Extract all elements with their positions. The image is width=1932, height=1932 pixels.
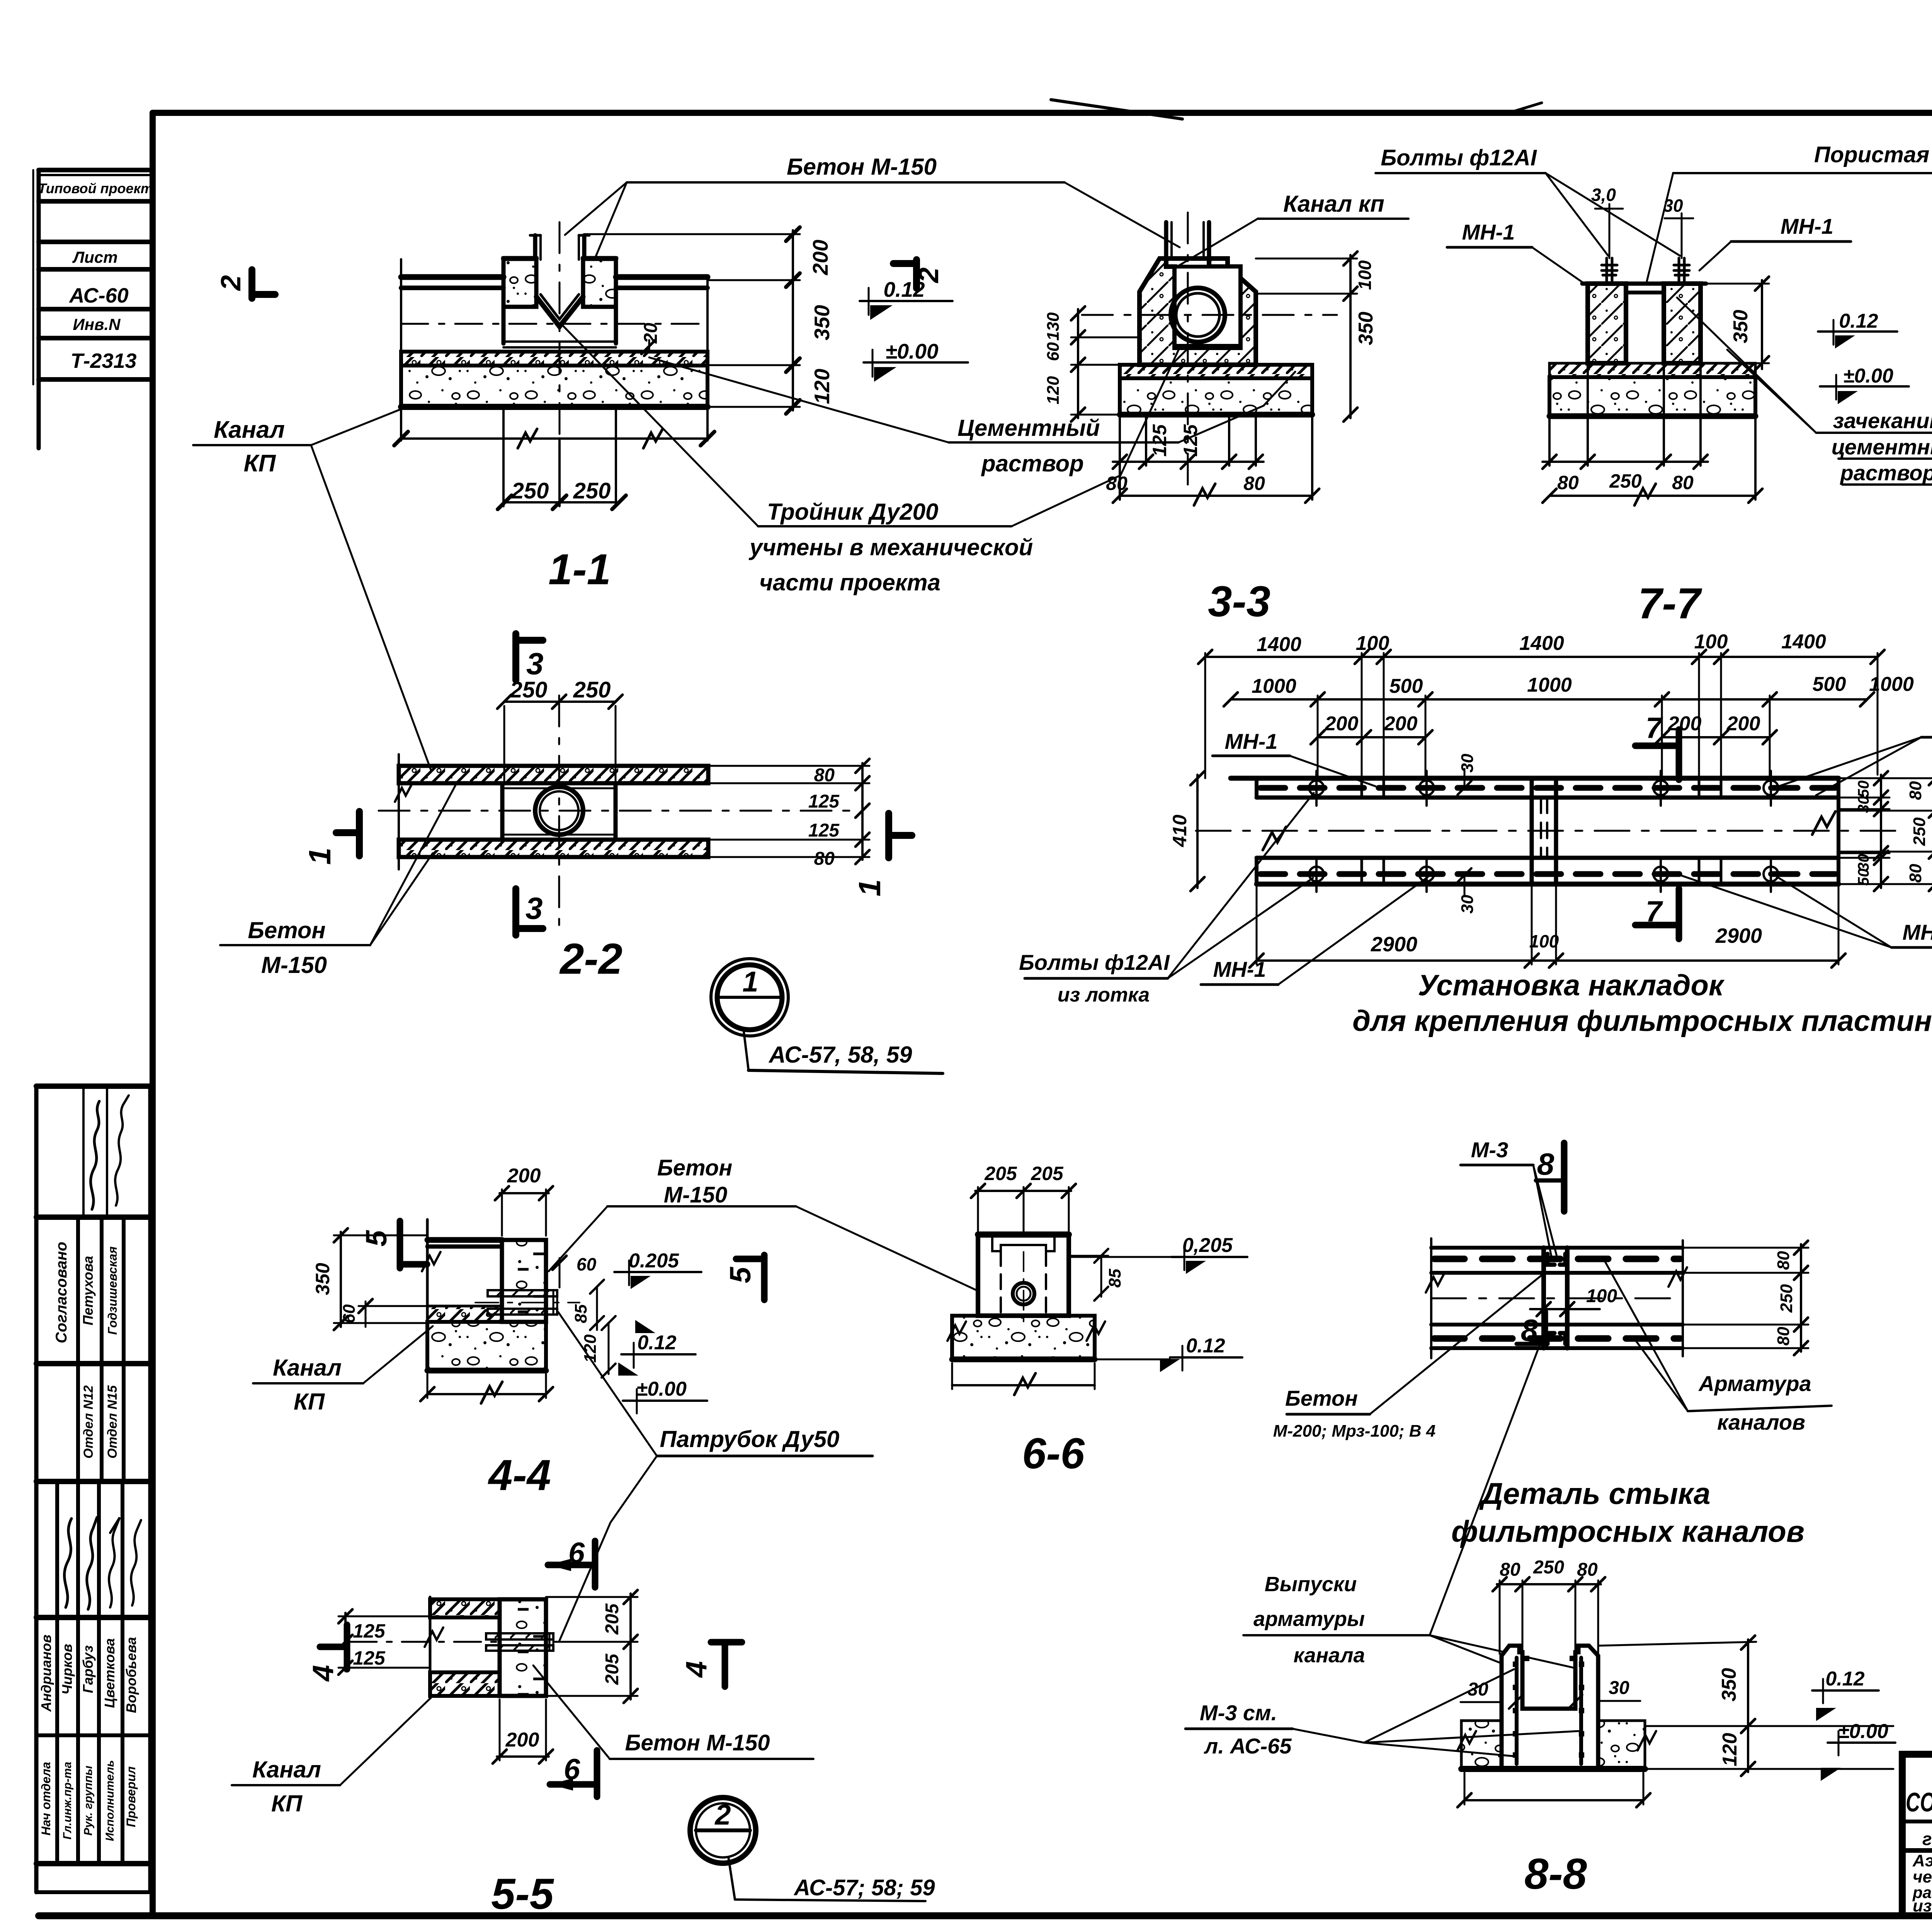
callout circle 2	[690, 1798, 935, 1901]
svg-text:7: 7	[1646, 895, 1663, 928]
Trojnik Du200 label	[561, 321, 1192, 595]
svg-text:±0.00: ±0.00	[885, 339, 939, 363]
5-5 left edge	[429, 1597, 432, 1698]
svg-text:80: 80	[814, 765, 835, 786]
U channel outline	[1502, 1646, 1598, 1769]
section 1-1 tee pipe stub	[533, 235, 537, 259]
svg-text:Андрианов: Андрианов	[38, 1634, 54, 1712]
svg-text:250: 250	[1533, 1557, 1564, 1578]
7-7 top plate	[1582, 282, 1706, 286]
5-5 bottom dim 200	[499, 1699, 501, 1760]
rebar dots	[1513, 1656, 1584, 1758]
left extension/break	[1430, 1238, 1432, 1358]
M-3 connector hooks	[1548, 1254, 1565, 1265]
4-4 left vertical	[426, 1219, 429, 1306]
svg-text:200: 200	[1325, 713, 1359, 735]
2-2 left edge verticals	[398, 754, 400, 869]
svg-text:1400: 1400	[1519, 632, 1564, 655]
svg-text:АС-57; 58; 59: АС-57; 58; 59	[793, 1875, 935, 1900]
2-2 section marker 1 left	[303, 811, 359, 865]
3-3 block walls hatched	[1139, 259, 1256, 365]
Beton M-150 label lower-left	[220, 784, 456, 978]
svg-text:МН-1: МН-1	[1903, 920, 1932, 944]
svg-text:50: 50	[1855, 781, 1872, 798]
svg-text:Цветкова: Цветкова	[102, 1638, 117, 1708]
section marker 7 bottom	[1676, 889, 1682, 939]
svg-text:раствором: раствором	[1840, 461, 1932, 485]
svg-text:130: 130	[1044, 312, 1063, 341]
svg-text:85: 85	[1105, 1269, 1124, 1287]
svg-text:250: 250	[573, 677, 611, 702]
svg-text:350: 350	[1718, 1668, 1740, 1702]
svg-text:0.12: 0.12	[1839, 310, 1878, 332]
MN-1 right label 7-7	[1699, 214, 1851, 270]
svg-text:из сборного железобетона: из сборного железобетона	[1913, 1896, 1932, 1915]
svg-text:3: 3	[526, 891, 543, 925]
2-2 bottom slab band	[399, 840, 708, 857]
svg-text:250: 250	[1777, 1284, 1796, 1313]
svg-text:Воробьева: Воробьева	[123, 1637, 139, 1713]
Bolty f12AI label	[1376, 145, 1680, 256]
svg-text:Патрубок Ду50: Патрубок Ду50	[660, 1426, 840, 1452]
svg-text:части проекта: части проекта	[759, 570, 940, 595]
svg-text:4-4: 4-4	[488, 1451, 551, 1499]
svg-text:0.12: 0.12	[637, 1332, 676, 1354]
4-4 filter plate left	[427, 1237, 502, 1243]
7-7 foundation width dim	[1754, 417, 1757, 500]
svg-text:МН-1: МН-1	[1781, 214, 1833, 238]
section marker 2 right	[893, 260, 944, 288]
2-2 tee plan block	[502, 783, 616, 840]
svg-text:205: 205	[1031, 1163, 1064, 1184]
svg-text:зачеканить: зачеканить	[1833, 408, 1932, 433]
centerline	[1196, 830, 1897, 832]
svg-text:1: 1	[303, 848, 337, 865]
zachekanit label	[1677, 298, 1932, 485]
svg-text:Отдел N15: Отдел N15	[105, 1385, 120, 1459]
wavy break left	[1263, 827, 1286, 850]
svg-text:410: 410	[1169, 815, 1190, 847]
svg-text:МН-1: МН-1	[1225, 729, 1278, 753]
svg-text:из лотка: из лотка	[1058, 984, 1150, 1006]
Kanal KP label top-left	[193, 410, 431, 770]
section 1-1 mortar band	[401, 352, 707, 366]
svg-text:200: 200	[507, 1165, 541, 1187]
Beton M-150 label 5-5	[533, 1665, 813, 1759]
svg-text:250: 250	[1609, 470, 1642, 492]
svg-text:3: 3	[526, 646, 544, 681]
svg-text:Арматура: Арматура	[1698, 1371, 1811, 1396]
svg-text:30: 30	[1609, 1678, 1629, 1698]
svg-text:2900: 2900	[1715, 924, 1762, 947]
svg-text:500: 500	[1813, 673, 1846, 696]
svg-text:250: 250	[1910, 817, 1929, 846]
svg-text:фильтросных каналов: фильтросных каналов	[1451, 1514, 1804, 1548]
3-3 bottom dims 80/125/125/80	[1119, 415, 1121, 466]
section 1-1 slab top lines	[401, 274, 503, 280]
svg-text:80: 80	[1774, 1251, 1793, 1270]
4-4 dim 85	[596, 1287, 598, 1330]
svg-text:1400: 1400	[1257, 633, 1301, 656]
row2 dims 1000/500/1000/500/1000	[1231, 698, 1867, 701]
section marker 7 top	[1676, 730, 1682, 780]
svg-text:50: 50	[1855, 869, 1872, 886]
svg-text:20: 20	[641, 323, 661, 344]
7-7 right bolt	[1674, 247, 1689, 284]
svg-text:1000: 1000	[1527, 674, 1572, 696]
6-6 dim 85	[1100, 1258, 1102, 1297]
ustanovka labels	[1019, 710, 1932, 1037]
6-6 bottom dim	[951, 1363, 953, 1389]
svg-text:Исполнитель: Исполнитель	[104, 1760, 116, 1841]
svg-text:1: 1	[742, 966, 758, 998]
4-4 pipe through wall	[475, 1290, 580, 1315]
5-5 dims 125/125	[344, 1613, 347, 1671]
svg-text:Тройник Ду200: Тройник Ду200	[767, 499, 938, 525]
svg-text:Нач отдела: Нач отдела	[39, 1762, 53, 1835]
row1 dims 1400/100/1400/100/1400	[1205, 656, 1878, 658]
svg-text:350: 350	[810, 305, 834, 340]
svg-text:100: 100	[1586, 1286, 1617, 1306]
5-5 marker 6 top	[592, 1541, 599, 1587]
svg-text:125: 125	[353, 1647, 386, 1669]
5-5 pipe	[486, 1633, 553, 1651]
2-2 right dims 80/125/125/80	[861, 763, 864, 860]
svg-text:5: 5	[360, 1230, 393, 1247]
svg-text:250: 250	[573, 478, 611, 503]
svg-text:2: 2	[216, 275, 247, 291]
center dash-dot	[1431, 1298, 1683, 1299]
svg-text:120: 120	[810, 369, 834, 404]
svg-text:1-1: 1-1	[548, 545, 611, 594]
section 1-1 channel walls	[502, 307, 506, 344]
svg-text:7-7: 7-7	[1638, 579, 1702, 628]
svg-text:80: 80	[1557, 472, 1579, 493]
svg-text:Канал кп: Канал кп	[1283, 191, 1384, 217]
foundation	[1461, 1721, 1502, 1769]
svg-text:80: 80	[814, 849, 835, 869]
ustanovka dimensions	[1169, 631, 1932, 968]
top dim 80/250/80	[1500, 1580, 1598, 1654]
dashed bolt lines in strips	[1260, 785, 1835, 791]
svg-text:80: 80	[1577, 1560, 1598, 1580]
svg-text:125: 125	[1149, 424, 1170, 457]
bolts bottom strip	[1309, 857, 1778, 892]
5-5 centerline	[350, 1641, 502, 1643]
3-3 left dims 130/60/120	[1077, 309, 1079, 418]
3-3 mortar band	[1120, 365, 1312, 378]
svg-text:Лист: Лист	[72, 248, 117, 266]
svg-text:Канал: Канал	[214, 417, 285, 443]
svg-text:80: 80	[1906, 781, 1925, 800]
svg-text:3,0: 3,0	[1591, 185, 1616, 205]
bolts top strip	[1309, 771, 1778, 806]
svg-text:500: 500	[1389, 675, 1423, 697]
svg-text:Пористая пластина: Пористая пластина	[1814, 142, 1932, 167]
svg-text:Инв.N: Инв.N	[73, 315, 121, 333]
section 1-1 extension lines	[400, 259, 402, 440]
svg-text:80: 80	[1906, 864, 1925, 883]
svg-text:М-3 см.: М-3 см.	[1200, 1701, 1277, 1725]
svg-text:125: 125	[1180, 424, 1201, 457]
3-3 horizontal centerline	[1082, 314, 1337, 316]
svg-text:2: 2	[913, 267, 944, 284]
svg-text:125: 125	[808, 820, 840, 841]
5-5 bottom band	[430, 1672, 500, 1696]
svg-text:100: 100	[1529, 931, 1559, 951]
Beton M-150 label 4-4/6-6	[549, 1155, 981, 1293]
svg-text:30: 30	[1458, 895, 1477, 913]
7-7 left wall	[1588, 284, 1626, 363]
svg-text:М-200; Мрз-100; В 4: М-200; Мрз-100; В 4	[1273, 1422, 1435, 1440]
svg-text:М-3: М-3	[1471, 1138, 1508, 1162]
right dim line 200/350/120	[792, 230, 794, 410]
svg-text:арматуры: арматуры	[1253, 1607, 1365, 1631]
svg-text:Отдел N12: Отдел N12	[81, 1385, 96, 1459]
svg-text:канала: канала	[1294, 1644, 1365, 1667]
M-3 sm label	[1185, 1669, 1578, 1758]
3-3 plate under pipe	[1175, 344, 1240, 346]
svg-text:КП: КП	[294, 1389, 325, 1415]
section marker 2 left	[216, 270, 275, 298]
svg-text:85: 85	[571, 1304, 590, 1323]
svg-text:100: 100	[1355, 260, 1375, 290]
section 1-1 funnel	[536, 297, 583, 327]
3-3 foundation	[1120, 378, 1312, 415]
dim 100 under joint	[1543, 1314, 1544, 1351]
7-7 mortar bed	[1549, 363, 1755, 377]
svg-text:250: 250	[511, 478, 549, 503]
4-4 section marker 5 right	[761, 1255, 768, 1300]
3-3 pipe stub	[1164, 222, 1168, 259]
svg-text:205: 205	[602, 1603, 622, 1635]
inner cavity verticals	[1520, 1652, 1525, 1709]
5-5 top band	[430, 1599, 500, 1617]
4-4 section marker 5 left	[397, 1221, 403, 1268]
svg-text:8: 8	[1537, 1147, 1554, 1181]
svg-text:0.12: 0.12	[1186, 1335, 1225, 1357]
2-2 section marker 3 bottom	[516, 889, 543, 935]
svg-text:80: 80	[1774, 1327, 1793, 1345]
svg-text:КП: КП	[244, 450, 276, 477]
Kanal KP label 5-5	[232, 1697, 432, 1816]
svg-text:200: 200	[505, 1729, 539, 1751]
svg-text:2900: 2900	[1371, 933, 1417, 956]
svg-text:350: 350	[1355, 312, 1377, 345]
svg-text:учтены в механической: учтены в механической	[748, 534, 1033, 560]
svg-text:60: 60	[1044, 342, 1063, 361]
section 1-1 bottom dim line with breaks	[401, 437, 707, 440]
svg-text:205: 205	[602, 1653, 622, 1685]
2-2 dim 250 250 top	[504, 701, 616, 703]
4-4 left dim 350	[340, 1232, 342, 1327]
svg-text:30: 30	[1855, 796, 1872, 813]
3-3 vertical centerline	[1187, 213, 1189, 487]
6-6 block	[978, 1235, 1069, 1316]
svg-text:5-5: 5-5	[491, 1870, 554, 1918]
svg-text:Болты ф12АI: Болты ф12АI	[1381, 145, 1537, 170]
bottom overall dim	[1464, 1773, 1466, 1804]
Poristaja plastina label	[1647, 142, 1932, 281]
svg-text:80: 80	[1500, 1560, 1520, 1580]
svg-text:Бетон: Бетон	[657, 1155, 733, 1180]
svg-text:Согласовано: Согласовано	[53, 1242, 70, 1344]
section 1-1 bottom plate 20mm	[503, 340, 616, 343]
svg-text:1000: 1000	[1252, 675, 1296, 697]
svg-text:100: 100	[1694, 631, 1728, 653]
2-2 top slab band	[399, 766, 708, 783]
3-3 right dim 100/350	[1349, 255, 1352, 418]
Vypuski armatury kanala label	[1253, 1573, 1365, 1667]
svg-text:7: 7	[1646, 712, 1663, 745]
2-2 horizontal centerline	[379, 810, 850, 812]
svg-text:100: 100	[1356, 632, 1389, 655]
4-4 dim 120	[608, 1323, 610, 1374]
svg-text:6-6: 6-6	[1022, 1429, 1085, 1478]
right dims 350/120	[1598, 1642, 1756, 1646]
7-7 right dim 350	[1761, 280, 1763, 369]
svg-text:125: 125	[353, 1620, 386, 1642]
svg-text:Канал: Канал	[273, 1355, 342, 1381]
svg-text:8-8: 8-8	[1524, 1850, 1587, 1898]
6-6 top dims 205 205	[977, 1187, 979, 1231]
svg-text:±0.00: ±0.00	[1838, 1720, 1888, 1743]
5-5 marker 4 right	[711, 1639, 742, 1646]
svg-text:для крепления фильтросных п: для крепления фильтросных пластин	[1352, 1005, 1932, 1037]
7-7 foundation	[1549, 377, 1755, 416]
svg-text:30: 30	[1458, 753, 1477, 772]
Kanal kp label for 3-3	[1176, 191, 1408, 267]
3-3 pipe circle	[1171, 288, 1225, 342]
svg-text:Канал: Канал	[252, 1757, 321, 1782]
svg-text:каналов: каналов	[1717, 1410, 1805, 1434]
svg-text:3-3: 3-3	[1208, 577, 1270, 626]
svg-text:Бетон: Бетон	[1285, 1386, 1358, 1410]
6-6 foundation	[952, 1316, 1095, 1359]
3-3 foundation width dim	[1119, 417, 1121, 500]
4-4 mortar band under plate	[427, 1306, 502, 1322]
svg-text:80: 80	[1243, 473, 1265, 494]
svg-text:Чирков: Чирков	[59, 1644, 75, 1694]
scan artifact stroke on top frame	[1051, 100, 1182, 119]
svg-text:КП: КП	[271, 1791, 303, 1816]
svg-text:120: 120	[1719, 1733, 1741, 1767]
4-4 foundation	[427, 1322, 546, 1371]
svg-text:60: 60	[577, 1254, 597, 1274]
section 1-1 centerline	[401, 323, 707, 325]
right end + wavy	[1682, 1240, 1684, 1356]
svg-text:350: 350	[312, 1263, 333, 1295]
5-5 wall	[500, 1599, 546, 1696]
wall inner thick lines	[1515, 1658, 1519, 1764]
6-6 pipe circle	[1013, 1283, 1034, 1304]
row3 dims 200/200 pairs	[1318, 736, 1425, 738]
7-7 left bolt	[1602, 247, 1617, 284]
signature scrawls	[91, 1101, 99, 1209]
2-2 section marker 1 right	[852, 813, 912, 896]
section 1-1 tee concrete body	[503, 259, 536, 307]
4-4 dim 60 right of pipe	[559, 1258, 561, 1287]
svg-text:125: 125	[808, 791, 840, 812]
section 1-1 foundation concrete	[401, 366, 707, 407]
Beton M-150 top label	[565, 154, 1180, 258]
svg-text:Т-2313: Т-2313	[70, 349, 136, 372]
joint verticals	[1541, 1248, 1546, 1348]
right dims 80/250/80	[1685, 1248, 1808, 1348]
svg-text:Гарбуз: Гарбуз	[80, 1645, 96, 1693]
right side dims 50/30/30/50 and 80/250/80	[1838, 778, 1932, 884]
svg-text:4: 4	[307, 1665, 340, 1682]
Cementnyj rastvor label	[649, 357, 1295, 476]
svg-text:0,205: 0,205	[1182, 1234, 1233, 1257]
6-6 inner profile dashed	[992, 1235, 1054, 1251]
svg-text:Выпуски: Выпуски	[1265, 1573, 1357, 1596]
svg-text:±0.00: ±0.00	[636, 1378, 687, 1400]
svg-text:6: 6	[564, 1753, 580, 1786]
5-5 marker 4 left	[320, 1644, 347, 1650]
Kanal KP label 4-4	[253, 1326, 433, 1415]
svg-text:200: 200	[1668, 713, 1702, 735]
svg-text:30: 30	[1855, 854, 1872, 871]
svg-text:0.12: 0.12	[1825, 1668, 1864, 1690]
5-5 marker 6 bottom	[594, 1750, 600, 1797]
callout circle 1	[711, 959, 943, 1073]
3-3 inner channel	[1175, 267, 1240, 348]
svg-text:Болты ф12АI: Болты ф12АI	[1019, 950, 1170, 975]
7-7 right wall	[1664, 284, 1701, 363]
2-2 section marker 3 top	[516, 634, 544, 681]
plate joint ticks	[1361, 778, 1363, 798]
svg-text:1000: 1000	[1869, 673, 1914, 696]
Patrubok Du50 label	[558, 1312, 872, 1641]
svg-text:раствор: раствор	[981, 451, 1084, 476]
4-4 top dim 200	[501, 1189, 503, 1236]
left dim 410	[1196, 775, 1199, 888]
4-4 bottom dim	[427, 1374, 429, 1398]
section 1-1 pipe centerline vertical	[559, 222, 561, 440]
5-5 dims 205/205	[629, 1594, 632, 1699]
dim 250 250	[505, 501, 619, 503]
center joint	[1530, 778, 1534, 884]
bottom dims 2900/100/2900	[1257, 887, 1838, 964]
svg-text:200: 200	[1384, 713, 1418, 735]
svg-text:5: 5	[724, 1266, 757, 1283]
top-left stamp table	[33, 170, 153, 448]
svg-text:4: 4	[680, 1661, 713, 1678]
svg-text:М-150: М-150	[664, 1182, 727, 1207]
svg-text:АС-57, 58, 59: АС-57, 58, 59	[768, 1042, 912, 1068]
7-7 bolt offset dims	[1591, 185, 1683, 216]
7-7 bottom dims 80/250/80	[1548, 416, 1551, 466]
svg-text:120: 120	[1044, 376, 1063, 405]
bar outline	[1231, 776, 1838, 781]
4-4 left dim 60	[365, 1301, 367, 1327]
svg-text:МН-1: МН-1	[1462, 220, 1515, 244]
svg-text:М-150: М-150	[261, 952, 327, 978]
svg-text:2-2: 2-2	[559, 935, 622, 983]
svg-text:60: 60	[340, 1304, 359, 1323]
2-2 vertical centerline	[558, 696, 560, 935]
svg-text:МН-1: МН-1	[1213, 957, 1266, 981]
svg-text:Бетон М-150: Бетон М-150	[625, 1730, 770, 1755]
extension verticals from dims to bar	[1205, 653, 1878, 778]
MN-1 left label 7-7	[1447, 220, 1589, 287]
channel plan lines	[1431, 1246, 1683, 1250]
svg-text:0.205: 0.205	[629, 1250, 679, 1272]
svg-text:Бетон М-150: Бетон М-150	[787, 154, 937, 180]
svg-text:Бетон: Бетон	[248, 917, 325, 943]
svg-text:200: 200	[1726, 713, 1760, 735]
